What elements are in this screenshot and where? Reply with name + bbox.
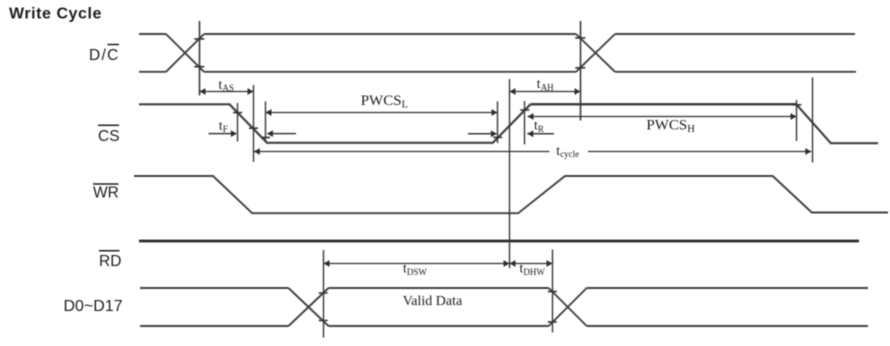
svg-text:Write Cycle: Write Cycle [9,6,102,23]
svg-text:D0~D17: D0~D17 [64,298,123,315]
svg-text:WR: WR [93,184,119,201]
svg-text:AS: AS [222,83,234,93]
svg-text:H: H [687,124,695,135]
svg-text:DSW: DSW [407,267,428,277]
svg-text:R: R [538,124,544,134]
svg-text:L: L [402,100,408,111]
svg-text:D/C: D/C [89,47,120,64]
svg-text:AH: AH [541,82,554,92]
svg-text:Valid Data: Valid Data [403,294,463,309]
svg-text:cycle: cycle [560,149,579,159]
svg-text:CS: CS [98,128,120,145]
svg-text:RD: RD [99,253,121,270]
svg-text:DHW: DHW [523,267,545,277]
svg-text:F: F [223,124,228,134]
svg-text:PWCS: PWCS [361,93,402,109]
svg-text:PWCS: PWCS [646,118,687,134]
